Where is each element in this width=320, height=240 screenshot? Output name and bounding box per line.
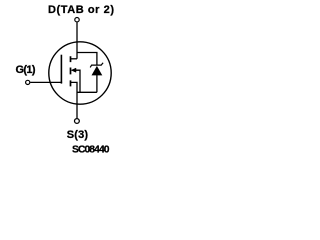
- svg-text:S(3): S(3): [67, 129, 89, 141]
- svg-text:G(1): G(1): [16, 64, 36, 76]
- svg-text:SC08440: SC08440: [72, 144, 110, 155]
- svg-text:D(TAB or 2): D(TAB or 2): [48, 4, 114, 16]
